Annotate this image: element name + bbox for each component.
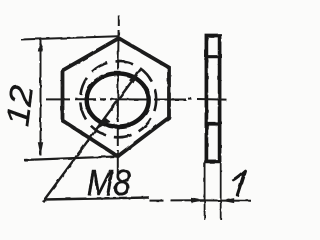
dim 12: dimension line xyxy=(40,39,42,156)
dim 12: extension line top xyxy=(21,36,118,39)
svg-text:12: 12 xyxy=(0,83,40,128)
label 1 xyxy=(233,171,245,195)
dim 1: dimension line left with arrow xyxy=(150,199,221,201)
side view internal line 1 xyxy=(205,55,222,58)
centerline horizontal (front view) xyxy=(46,98,186,100)
dim 1: extension line right xyxy=(220,163,222,220)
leader shelf xyxy=(45,198,150,200)
thread major dia circle (dashed) xyxy=(80,61,156,137)
dim 12: extension line bottom xyxy=(24,156,120,160)
centerline vertical (front view) xyxy=(118,16,119,178)
svg-text:M8: M8 xyxy=(87,163,131,203)
side view rectangle xyxy=(206,36,219,162)
dim 12: arrow down xyxy=(38,142,43,156)
dim 1: dimension line right with arrow xyxy=(221,200,251,202)
leader arrowhead upper right xyxy=(128,70,140,84)
leader/diameter line M8 xyxy=(43,70,141,202)
tapped hole circle (thick) xyxy=(87,73,149,126)
leader arrowhead lower left xyxy=(96,118,111,130)
dim 1: extension line left xyxy=(204,163,206,220)
side view internal line 2 xyxy=(205,122,222,125)
centerline horizontal (side view) xyxy=(188,99,227,100)
dim 12: arrow up xyxy=(38,38,43,52)
hexagon outline (nut front view) xyxy=(63,38,170,156)
